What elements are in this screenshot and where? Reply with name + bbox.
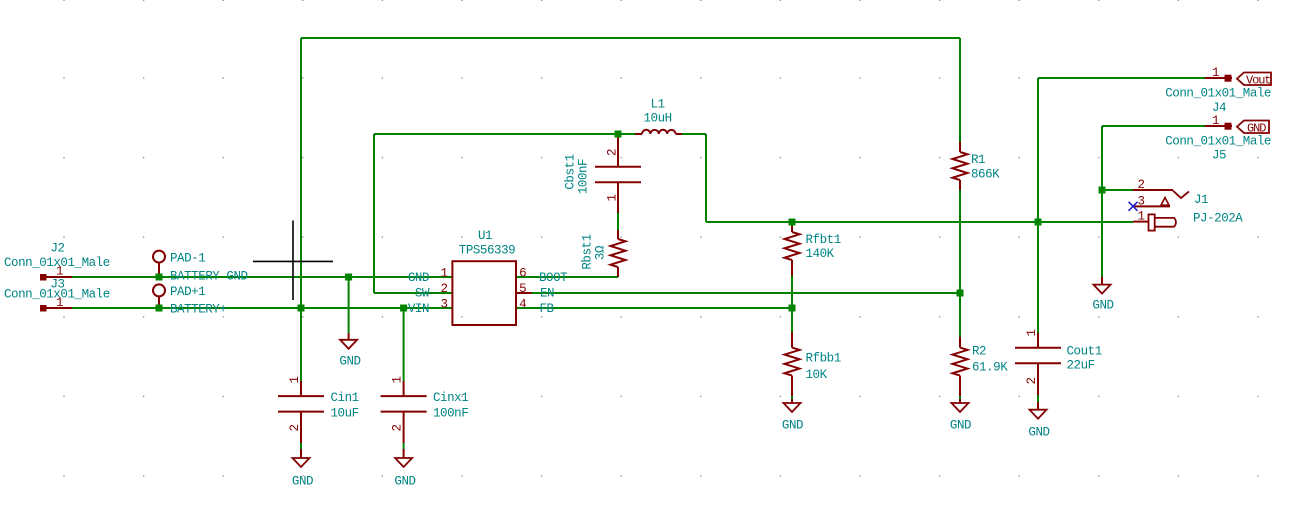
svg-text:1: 1 [288, 376, 302, 383]
ground (Cin1) [300, 449, 302, 458]
connector J2 pin 1 [40, 274, 47, 281]
wire GND row to U1 [72, 276, 453, 278]
J1 switch contact [1173, 191, 1189, 198]
wire Rfbb1 bottom stub [791, 396, 793, 399]
wire VIN top loop horizontal [301, 37, 960, 39]
svg-text:J4: J4 [1212, 101, 1226, 115]
svg-text:2: 2 [1025, 377, 1039, 384]
wire SW vertical from pin 2 [373, 134, 375, 293]
svg-text:PAD+1: PAD+1 [170, 285, 205, 299]
wire Cout1 lower stub [1037, 395, 1039, 402]
svg-text:1: 1 [440, 267, 447, 281]
wire Cin1 gnd stub [300, 443, 302, 449]
wire EN from pin 5 [532, 292, 961, 294]
ground (Rfbb1) [791, 399, 793, 403]
capacitor Cinx1 [403, 381, 405, 396]
cursor crosshair [253, 260, 333, 262]
ground (GND row) [348, 333, 350, 340]
wire Cbst1 to Rbst1 link [617, 213, 619, 230]
svg-text:1: 1 [1137, 210, 1144, 224]
svg-text:Cinx1: Cinx1 [433, 391, 468, 405]
svg-text:2: 2 [440, 282, 447, 296]
wire Rfbt1 top junction stub [791, 222, 793, 226]
capacitor Cbst1 [617, 135, 619, 167]
ground (output) [1101, 277, 1103, 285]
svg-text:BOOT: BOOT [539, 271, 568, 285]
capacitor Cout1 [1037, 333, 1039, 348]
svg-text:1: 1 [1025, 329, 1039, 336]
wire R2 top vertical [959, 293, 961, 337]
svg-text:10K: 10K [806, 368, 828, 382]
svg-text:BATTERY+: BATTERY+ [170, 303, 226, 317]
svg-text:GND: GND [292, 475, 313, 489]
pad PAD+1 [153, 284, 165, 296]
svg-text:GND: GND [1028, 426, 1049, 440]
svg-text:4: 4 [519, 298, 526, 312]
svg-text:100nF: 100nF [433, 407, 468, 421]
resistor R2 [959, 337, 961, 348]
connector J1 pin 1 barrel [1133, 221, 1149, 223]
svg-text:Rfbt1: Rfbt1 [806, 233, 841, 247]
svg-text:GND: GND [1092, 299, 1113, 313]
svg-text:1: 1 [391, 376, 405, 383]
svg-text:Conn_01x01_Male: Conn_01x01_Male [1165, 135, 1271, 149]
svg-text:GND: GND [1247, 121, 1266, 135]
svg-text:GND: GND [408, 271, 429, 285]
wire GND vertical J5 to ground [1101, 126, 1103, 277]
no-connect pin 3 [1129, 202, 1138, 211]
svg-text:Cout1: Cout1 [1067, 345, 1102, 359]
inductor L1 [635, 133, 642, 135]
wire FB from pin 4 [516, 307, 792, 309]
svg-text:R2: R2 [972, 345, 986, 359]
svg-text:3: 3 [440, 298, 447, 312]
svg-text:2: 2 [288, 424, 302, 431]
svg-text:6: 6 [519, 267, 526, 281]
U1 pin 5 EN [516, 292, 532, 294]
svg-text:1: 1 [56, 265, 63, 279]
resistor Rfbt1 [791, 226, 793, 232]
svg-text:EN: EN [540, 287, 554, 301]
wire Vout rail horizontal [706, 221, 1133, 223]
wire Cout1 drop [1037, 222, 1039, 333]
svg-text:1: 1 [1212, 66, 1219, 80]
svg-text:2: 2 [1137, 178, 1144, 192]
svg-text:J5: J5 [1212, 149, 1226, 163]
svg-text:61.9K: 61.9K [972, 361, 1008, 375]
capacitor Cin1 [300, 381, 302, 396]
wire divider mid vertical [791, 276, 793, 332]
junction SW/Cbst1 [615, 131, 622, 138]
svg-text:GND: GND [339, 355, 360, 369]
resistor Rbst1 [617, 230, 619, 239]
global label GND [1237, 121, 1269, 134]
svg-text:FB: FB [540, 302, 555, 316]
connector J1 pin 2 [1133, 189, 1173, 191]
junction Cin1 [298, 305, 305, 312]
wire R1 top vertical [959, 38, 961, 142]
svg-text:GND: GND [782, 419, 803, 433]
wire GND drop to ground [348, 277, 350, 333]
wire Cin1 drop [300, 308, 302, 381]
junction EN/R1/R2 [957, 290, 964, 297]
svg-text:U1: U1 [478, 229, 492, 243]
junction PAD-1 [156, 274, 163, 281]
pad PAD-1 [153, 251, 165, 263]
connector J1 pin 3 [1134, 205, 1170, 207]
ground (Cinx1) [403, 449, 405, 458]
wire SW pin 2 horizontal [374, 292, 453, 294]
junction FB divider [789, 305, 796, 312]
svg-text:R1: R1 [971, 153, 985, 167]
svg-text:Rfbb1: Rfbb1 [806, 352, 841, 366]
svg-text:TPS56339: TPS56339 [459, 244, 515, 258]
op-amp U1 TPS56339 body [452, 261, 516, 325]
global label Vout [1237, 73, 1271, 86]
wire R2 bottom stub [959, 396, 961, 399]
svg-text:VIN: VIN [408, 302, 429, 316]
svg-text:1: 1 [56, 296, 63, 310]
svg-text:Vout: Vout [1246, 73, 1270, 87]
svg-text:1: 1 [1212, 114, 1219, 128]
junction Cinx1 [400, 305, 407, 312]
svg-text:L1: L1 [651, 98, 665, 112]
wire VIN row to U1 [72, 307, 453, 309]
junction PAD+1 [156, 305, 163, 312]
wire jack pin 2 stub [1102, 189, 1133, 191]
wire Vout horizontal to J4 [1038, 77, 1205, 79]
svg-text:PJ-202A: PJ-202A [1193, 212, 1243, 226]
resistor R1 [959, 142, 961, 152]
svg-text:BATTERY GND: BATTERY GND [170, 270, 248, 284]
junction jack pin2 [1099, 187, 1106, 194]
wire Cinx1 drop [403, 308, 405, 381]
svg-text:Conn_01x01_Male: Conn_01x01_Male [1165, 87, 1271, 101]
ground (R2) [959, 399, 961, 403]
svg-text:PAD-1: PAD-1 [170, 252, 205, 266]
wire R1 bottom vertical [959, 190, 961, 293]
svg-text:140K: 140K [806, 247, 835, 261]
svg-text:SW: SW [415, 287, 430, 301]
svg-text:1: 1 [606, 194, 620, 201]
svg-text:Rbst1: Rbst1 [581, 234, 595, 269]
svg-text:2: 2 [391, 424, 405, 431]
connector J3 pin 1 [40, 305, 47, 312]
svg-text:3Ω: 3Ω [594, 245, 608, 260]
wire BOOT from pin 6 [516, 276, 618, 278]
wire L1 to corner [682, 133, 706, 135]
svg-text:Cbst1: Cbst1 [564, 154, 578, 189]
junction GND row [345, 274, 352, 281]
wire Vout vertical [1037, 78, 1039, 222]
svg-text:GND: GND [950, 419, 971, 433]
svg-text:10uF: 10uF [331, 407, 359, 421]
svg-text:5: 5 [519, 282, 526, 296]
wire GND horizontal to J5 [1102, 125, 1205, 127]
svg-text:2: 2 [606, 149, 620, 156]
junction Vout rail [1035, 219, 1042, 226]
svg-text:866K: 866K [971, 168, 1000, 182]
svg-text:Cin1: Cin1 [331, 391, 359, 405]
svg-text:J2: J2 [50, 242, 64, 256]
wire VIN left vertical [300, 38, 302, 308]
svg-text:GND: GND [394, 475, 415, 489]
connector J4 pin 1 [1205, 77, 1232, 79]
wire Cinx1 gnd stub [403, 443, 405, 449]
svg-text:100nF: 100nF [577, 159, 591, 194]
J1 switch arrow [1161, 198, 1169, 206]
wire SW horizontal to L1 [374, 133, 635, 135]
junction Rfbt1 top [789, 219, 796, 226]
svg-text:J1: J1 [1194, 193, 1208, 207]
svg-text:10uH: 10uH [643, 112, 671, 126]
resistor Rfbb1 [791, 332, 793, 348]
ground (Cout1) [1037, 402, 1039, 410]
wire corner down to Vout rail [705, 134, 707, 222]
connector J5 pin 1 [1205, 125, 1232, 127]
svg-text:3: 3 [1137, 195, 1144, 209]
svg-text:22uF: 22uF [1067, 359, 1095, 373]
